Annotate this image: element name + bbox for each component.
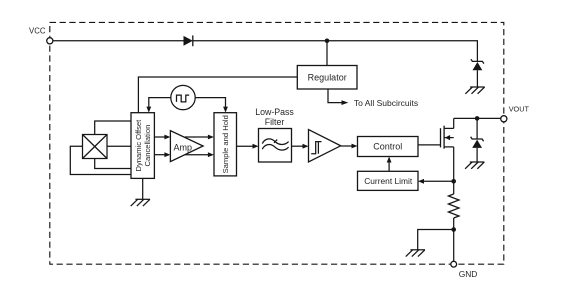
ground (under Z2) bbox=[465, 162, 484, 169]
node J3 junction source / current limit sense bbox=[451, 179, 456, 184]
transistor Q1 output MOSFET bbox=[441, 126, 454, 149]
wire regulator bottom to subcircuits arrow bbox=[328, 89, 342, 103]
op-amp Amp triangle bbox=[170, 131, 203, 162]
wire top rail VCC to diode bbox=[53, 40, 184, 42]
svg-text:Low-Pass: Low-Pass bbox=[255, 107, 294, 117]
arrowhead clock into DOC bbox=[146, 107, 151, 113]
wire Low-Pass Filter to schmitt trigger bbox=[292, 145, 304, 147]
node J1 junction top rail / regulator bbox=[325, 39, 330, 44]
wire VOUT rail bbox=[454, 117, 501, 119]
wire Amp to Sample and Hold lower bbox=[185, 154, 209, 156]
terminal VOUT pin circle bbox=[501, 116, 507, 122]
wire hall right terminal to DOC bbox=[107, 145, 131, 147]
wire dynamic-offset block top to regulator left bbox=[138, 77, 297, 113]
wire Current Limit up to Control bbox=[388, 162, 390, 171]
svg-text:To All Subcircuits: To All Subcircuits bbox=[354, 98, 418, 108]
hall element X1 (multiplier box) bbox=[83, 135, 108, 159]
wire J4 left and down to ground bbox=[418, 230, 454, 250]
svg-text:Regulator: Regulator bbox=[308, 72, 347, 82]
wire Control output to MOSFET gate bbox=[418, 144, 441, 146]
wire Sample and Hold to Low-Pass Filter bbox=[237, 145, 254, 147]
wire DOC to Amp lower bbox=[154, 154, 165, 156]
Control block box bbox=[358, 137, 419, 157]
wire hall bottom terminal to DOC bbox=[95, 159, 131, 169]
wire top rail diode to corner above zener Z1 bbox=[193, 41, 478, 62]
svg-text:Dynamic OffsetCancellation: Dynamic OffsetCancellation bbox=[134, 119, 152, 172]
wire hall left terminal loop to DOC bbox=[70, 146, 131, 174]
hysteresis glyph inside schmitt trigger bbox=[311, 142, 321, 154]
clock oscillator OSC circle bbox=[171, 85, 195, 109]
filter icon lower wave bbox=[262, 145, 288, 151]
terminal VCC pin circle bbox=[47, 38, 53, 44]
resistor R1 sense resistor bbox=[448, 194, 459, 218]
node J4 junction resistor bottom / ground branch bbox=[451, 227, 456, 232]
wire hall top terminal to DOC bbox=[95, 121, 131, 135]
svg-text:Amp: Amp bbox=[174, 142, 193, 152]
wire MOSFET source down to resistor bbox=[453, 147, 455, 194]
regulator U1 box bbox=[297, 66, 357, 90]
wire DOC bottom to ground bbox=[142, 178, 144, 199]
svg-text:Filter: Filter bbox=[265, 117, 285, 127]
ground (under Z1) bbox=[465, 87, 484, 94]
svg-text:Sample and Hold: Sample and Hold bbox=[221, 115, 230, 173]
wire sense node to Current Limit bbox=[424, 180, 454, 182]
ground (bottom internal) bbox=[406, 250, 425, 257]
wire junction J1 down to regulator bbox=[326, 41, 328, 66]
svg-text:Control: Control bbox=[373, 141, 402, 151]
svg-text:VOUT: VOUT bbox=[509, 105, 530, 114]
Current Limit block box bbox=[358, 171, 419, 190]
wire resistor bottom to GND terminal bbox=[453, 218, 455, 261]
square wave glyph inside OSC bbox=[177, 95, 190, 102]
arrowhead to all subcircuits bbox=[342, 100, 349, 105]
wire schmitt trigger to Control bbox=[341, 145, 352, 147]
svg-text:GND: GND bbox=[459, 269, 478, 279]
schmitt trigger U2 triangle bbox=[309, 130, 341, 162]
ground (under DOC) bbox=[131, 199, 150, 206]
zener diode Z1 (supply clamp) bbox=[471, 59, 484, 70]
filter icon cut tick bbox=[274, 140, 277, 143]
filter icon upper wave bbox=[262, 139, 288, 145]
Dynamic Offset Cancellation block box bbox=[131, 113, 154, 179]
wire DOC to Amp upper bbox=[154, 136, 165, 138]
wire OSC left to Dynamic Offset Cancellation clock input bbox=[149, 98, 171, 107]
zener diode Z2 (output clamp) bbox=[471, 137, 484, 148]
wire MOSFET drain up to VOUT rail bbox=[453, 118, 455, 128]
node J2 junction VOUT / zener Z2 bbox=[475, 116, 480, 121]
wire Z1 anode to ground bbox=[476, 70, 478, 87]
wire J2 down to zener Z2 bbox=[476, 118, 478, 139]
diode D1 (series, anode left) bbox=[184, 35, 193, 46]
svg-text:Current Limit: Current Limit bbox=[364, 176, 413, 186]
arrowhead clock into Sample and Hold bbox=[223, 107, 228, 113]
IC boundary dashed box bbox=[50, 22, 504, 264]
Sample and Hold block box bbox=[214, 113, 237, 176]
svg-text:VCC: VCC bbox=[29, 27, 46, 36]
terminal GND pin circle bbox=[451, 261, 457, 267]
wire OSC right to Sample and Hold clock input bbox=[195, 98, 225, 107]
wire Z2 anode to ground bbox=[476, 148, 478, 162]
Low-Pass Filter block box bbox=[259, 129, 292, 163]
wire Amp to Sample and Hold upper bbox=[185, 136, 209, 138]
